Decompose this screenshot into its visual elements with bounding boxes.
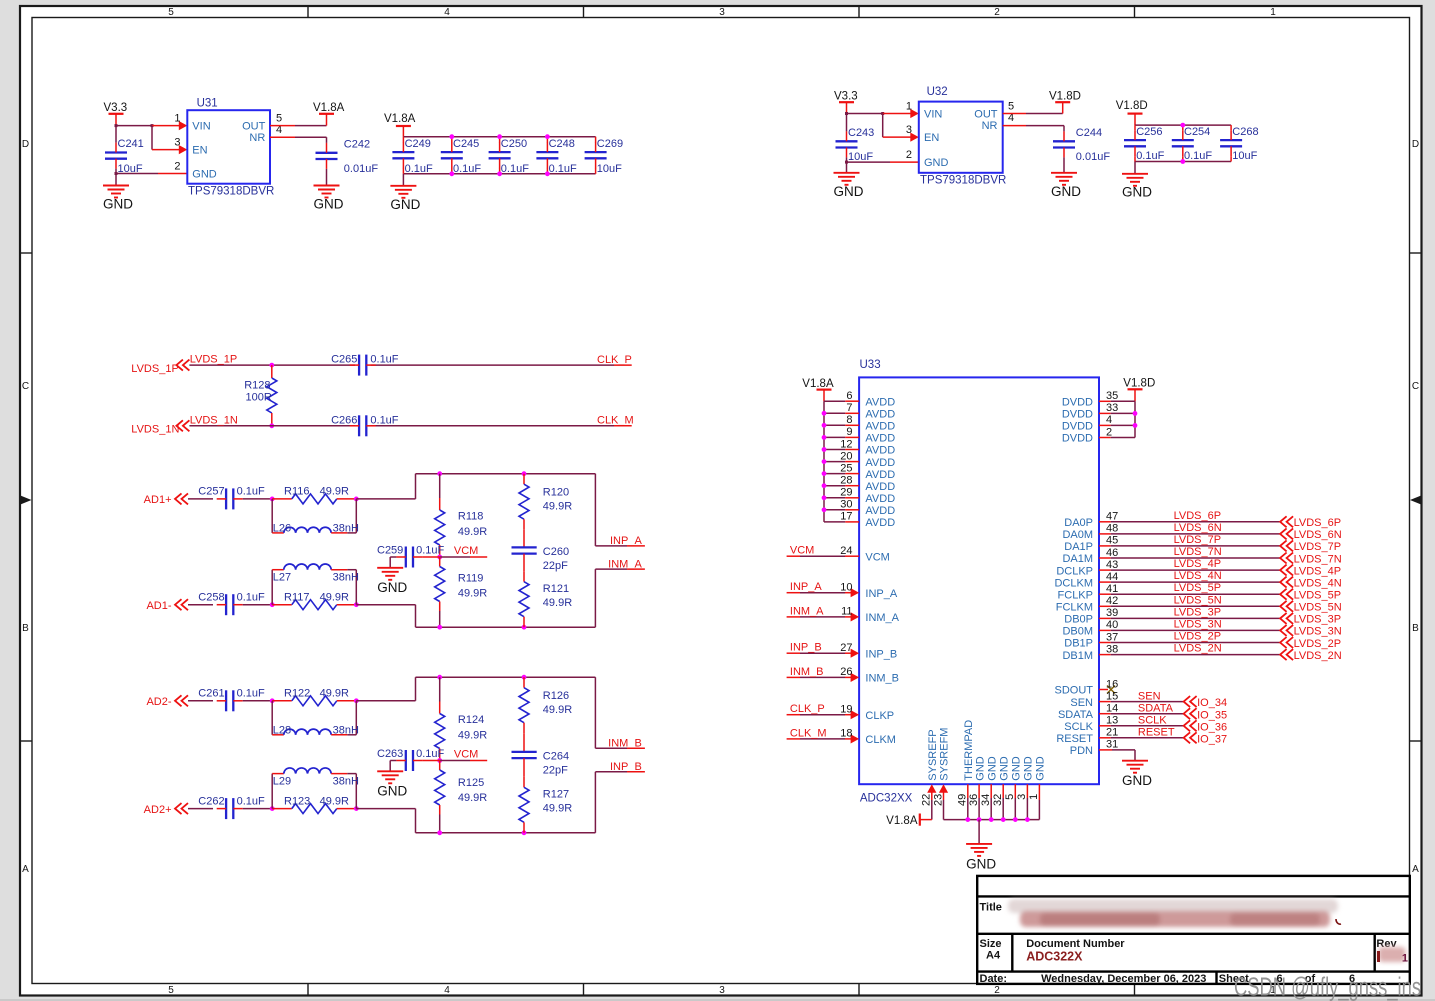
- pin 16 number U33: [1106, 678, 1118, 690]
- svg-text:AVDD: AVDD: [865, 517, 895, 529]
- svg-text:AVDD: AVDD: [865, 481, 895, 493]
- svg-text:9: 9: [846, 426, 852, 438]
- svg-text:INM_A: INM_A: [790, 605, 824, 617]
- wire V1.8D bank to ground: [1134, 162, 1136, 174]
- svg-text:C262: C262: [198, 795, 224, 807]
- svg-text:49.9R: 49.9R: [320, 688, 349, 700]
- svg-text:CLK_P: CLK_P: [597, 354, 632, 366]
- watermark: [1234, 972, 1421, 1001]
- wire V3.3 to U31 VIN: [115, 121, 188, 130]
- wire R117 to network: [356, 605, 415, 628]
- svg-text:R116: R116: [284, 486, 309, 498]
- port LVDS_3P: [1280, 613, 1341, 626]
- svg-text:0.1uF: 0.1uF: [1184, 150, 1212, 162]
- svg-text:V1.8A: V1.8A: [886, 815, 918, 827]
- resistor R128: [244, 365, 277, 426]
- net alias LVDS_7P: [1174, 534, 1222, 546]
- pin 46 number U33: [1106, 547, 1118, 559]
- svg-text:R118: R118: [458, 510, 483, 522]
- wire DVDD pin stubs: [1099, 401, 1135, 437]
- net label INP_A: [610, 535, 642, 547]
- svg-text:GND: GND: [1051, 184, 1081, 199]
- resistor R124: [435, 677, 488, 760]
- svg-text:SCLK: SCLK: [1064, 721, 1093, 733]
- svg-text:GND: GND: [377, 580, 407, 595]
- svg-text:49.9R: 49.9R: [320, 591, 349, 603]
- pin 41 number U33: [1106, 583, 1118, 595]
- junction VCM B: [437, 758, 442, 763]
- title block Sheet label: [1219, 973, 1249, 985]
- U32 pin name VIN: [924, 109, 942, 121]
- ground GND (C243): [834, 173, 864, 199]
- wire LVDS_6P output: [1099, 521, 1280, 523]
- svg-text:DB1P: DB1P: [1064, 638, 1093, 650]
- svg-text:LVDS_5N: LVDS_5N: [1294, 602, 1342, 614]
- svg-text:43: 43: [1106, 559, 1118, 571]
- wire VCM stub A: [440, 556, 488, 558]
- wire net SDATA to port IO_35: [1099, 713, 1184, 715]
- svg-text:R126: R126: [543, 690, 569, 702]
- resistor R127: [519, 758, 572, 833]
- capacitor C241: [105, 126, 144, 175]
- svg-text:AD2-: AD2-: [146, 696, 171, 708]
- junction R116 right: [354, 497, 359, 502]
- svg-text:LVDS_4N: LVDS_4N: [1174, 570, 1222, 582]
- svg-text:R122: R122: [284, 688, 310, 700]
- resistor R126: [519, 677, 572, 752]
- svg-text:LVDS_7P: LVDS_7P: [1174, 534, 1222, 546]
- wire AVDD bus: [823, 401, 825, 522]
- svg-text:C249: C249: [405, 138, 431, 150]
- net alias LVDS_3N: [1174, 618, 1222, 630]
- pin 31 number U33: [1106, 739, 1118, 751]
- power symbol V1.8A (cap bank): [384, 113, 416, 137]
- svg-text:INP_A: INP_A: [790, 581, 822, 593]
- port LVDS_2P: [1280, 637, 1341, 650]
- port LVDS_5N: [1280, 601, 1342, 614]
- title block Date label: [980, 973, 1008, 985]
- svg-text:LVDS_6N: LVDS_6N: [1294, 529, 1342, 541]
- svg-text:0.1uF: 0.1uF: [453, 163, 481, 175]
- ic U32 part number: [920, 175, 1006, 187]
- capacitor C254: [1172, 125, 1213, 162]
- title block Rev label: [1376, 938, 1397, 950]
- svg-text:32: 32: [992, 794, 1004, 806]
- wire EN branch to U31 pin 3: [152, 126, 187, 155]
- title blurred text: [1008, 899, 1341, 927]
- pin 16 SDOUT no-connect: [1099, 686, 1115, 694]
- svg-text:V3.3: V3.3: [834, 91, 858, 103]
- wire LVDS_3N output: [1099, 629, 1280, 631]
- svg-text:CLK_M: CLK_M: [790, 727, 827, 739]
- svg-text:C254: C254: [1184, 126, 1210, 138]
- wire net VCM to U33: [787, 555, 860, 557]
- U33 pin name DCLKM: [1054, 577, 1093, 589]
- ground GND (U33): [966, 844, 996, 872]
- U31 pin name GND: [192, 169, 217, 181]
- U33 pin name INM_A: [865, 612, 899, 624]
- svg-text:SEN: SEN: [1138, 690, 1161, 702]
- U33 pin name DA0P: [1064, 517, 1093, 529]
- svg-text:19: 19: [840, 704, 852, 716]
- pin 37 number U33: [1106, 631, 1118, 643]
- svg-text:16: 16: [1106, 678, 1118, 690]
- svg-text:Date:: Date:: [980, 973, 1008, 985]
- wire net INP_B to U33: [787, 649, 860, 658]
- port LVDS_2N: [1280, 649, 1342, 662]
- pin 4 number U32: [1008, 112, 1014, 124]
- svg-text:LVDS_7N: LVDS_7N: [1294, 553, 1342, 565]
- svg-text:L28: L28: [273, 724, 291, 736]
- svg-text:49.9R: 49.9R: [458, 526, 487, 538]
- svg-text:0.1uF: 0.1uF: [237, 795, 265, 807]
- wire net CLK_P to U33: [787, 710, 860, 719]
- svg-text:0.01uF: 0.01uF: [1076, 151, 1111, 163]
- svg-text:LVDS_3P: LVDS_3P: [1294, 614, 1342, 626]
- svg-text:24: 24: [840, 545, 852, 557]
- title block Size label: [980, 938, 1002, 950]
- U32 pin name NR: [982, 120, 998, 132]
- wire network top rail: [416, 471, 596, 476]
- svg-text:GND: GND: [1035, 756, 1047, 781]
- U33 pin name SCLK: [1064, 721, 1093, 733]
- svg-text:SDOUT: SDOUT: [1055, 685, 1094, 697]
- svg-text:C: C: [1412, 381, 1419, 392]
- net label CLK_M: [597, 414, 634, 426]
- wire net INM_A to U33: [787, 612, 860, 621]
- svg-text:LVDS_6P: LVDS_6P: [1174, 510, 1222, 522]
- svg-text:LVDS_2N: LVDS_2N: [1174, 643, 1222, 655]
- svg-text:33: 33: [1106, 402, 1118, 414]
- U33 pin name DB0M: [1062, 626, 1093, 638]
- svg-text:Size: Size: [980, 938, 1002, 950]
- svg-text:C259: C259: [377, 545, 403, 557]
- net label INM_A: [608, 558, 642, 570]
- capacitor C244: [1053, 127, 1110, 163]
- svg-text:PDN: PDN: [1070, 745, 1093, 757]
- svg-text:AVDD: AVDD: [865, 396, 895, 408]
- wire V3.3 to U32 VIN: [845, 109, 919, 118]
- svg-text:LVDS_5P: LVDS_5P: [1294, 590, 1342, 602]
- capacitor C268: [1220, 125, 1258, 162]
- svg-text:SEN: SEN: [1070, 697, 1093, 709]
- svg-text:AVDD: AVDD: [865, 493, 895, 505]
- svg-text:AVDD: AVDD: [865, 469, 895, 481]
- wire net INM_B to U33: [787, 673, 860, 682]
- port IO_36: [1184, 720, 1227, 733]
- svg-text:25: 25: [840, 462, 852, 474]
- svg-text:GND: GND: [966, 857, 996, 872]
- net alias SDATA: [1138, 702, 1174, 714]
- rev blurred value: [1377, 947, 1408, 965]
- wire AD1+ input: [188, 498, 213, 500]
- svg-text:100R: 100R: [246, 391, 272, 403]
- svg-text:INP_B: INP_B: [790, 642, 822, 654]
- power symbol V1.8D (U33 DVDD): [1123, 378, 1155, 402]
- svg-text:C258: C258: [198, 591, 224, 603]
- resistor R121: [519, 554, 572, 628]
- svg-text:IO_37: IO_37: [1197, 733, 1227, 745]
- svg-text:LVDS_4N: LVDS_4N: [1294, 577, 1342, 589]
- pin 26 number U33: [840, 666, 852, 678]
- svg-text:A4: A4: [986, 950, 1001, 962]
- U33 pin name DB1P: [1064, 638, 1093, 650]
- svg-text:LVDS_4P: LVDS_4P: [1294, 565, 1342, 577]
- svg-text:EN: EN: [192, 145, 207, 157]
- svg-text:49.9R: 49.9R: [320, 795, 349, 807]
- svg-text:6: 6: [846, 390, 852, 402]
- svg-text:DVDD: DVDD: [1062, 421, 1093, 433]
- svg-text:11: 11: [841, 606, 852, 618]
- wire LVDS_5P output: [1099, 593, 1280, 595]
- svg-text:AVDD: AVDD: [865, 433, 895, 445]
- svg-text:C268: C268: [1232, 126, 1258, 138]
- svg-text:R125: R125: [458, 777, 484, 789]
- pin 39 number U33: [1106, 607, 1118, 619]
- svg-text:0.1uF: 0.1uF: [416, 545, 444, 557]
- svg-text:U31: U31: [197, 98, 218, 110]
- wire C243 to ground: [846, 162, 848, 173]
- ground GND (V1.8A bank): [390, 186, 420, 212]
- U33 bottom pin numbers: [921, 794, 1041, 806]
- AVDD pin numbers: [840, 390, 852, 523]
- svg-text:L26: L26: [273, 522, 291, 534]
- port LVDS_7N: [1280, 553, 1342, 566]
- U31 pin name VIN: [192, 121, 210, 133]
- svg-text:45: 45: [1106, 535, 1118, 547]
- wire V1.8D bank bottom rail: [1135, 161, 1231, 163]
- capacitor C243: [836, 114, 875, 164]
- port LVDS_7P: [1280, 540, 1341, 553]
- svg-text:38: 38: [1106, 643, 1118, 655]
- svg-text:0.1uF: 0.1uF: [549, 163, 577, 175]
- svg-text:LVDS_7N: LVDS_7N: [1174, 546, 1222, 558]
- svg-text:EN: EN: [924, 132, 939, 144]
- svg-text:GND: GND: [1122, 185, 1152, 200]
- svg-text:1: 1: [1402, 953, 1408, 965]
- svg-text:5: 5: [1004, 794, 1016, 800]
- svg-text:2: 2: [1106, 426, 1112, 438]
- svg-text:R117: R117: [284, 591, 309, 603]
- port LVDS_1N: [131, 420, 189, 435]
- svg-text:C248: C248: [549, 138, 575, 150]
- wire output INP_B: [595, 772, 645, 833]
- pin 10 number U33: [840, 582, 852, 594]
- svg-text:SYSREFP: SYSREFP: [927, 729, 939, 780]
- U33 bottom pin names: [927, 720, 1047, 781]
- wire AD2- input: [188, 700, 213, 702]
- svg-text:27: 27: [840, 642, 852, 654]
- svg-text:R120: R120: [543, 486, 569, 498]
- pin 43 number U33: [1106, 559, 1118, 571]
- svg-text:LVDS_2N: LVDS_2N: [1294, 650, 1342, 662]
- capacitor C248: [536, 137, 577, 176]
- svg-text:42: 42: [1106, 595, 1118, 607]
- svg-text:INP_A: INP_A: [610, 535, 642, 547]
- pin 5 number U31: [276, 113, 282, 125]
- pin 44 number U33: [1106, 571, 1118, 583]
- capacitor C242: [316, 139, 379, 175]
- junctions on V1.8A bank rails: [449, 134, 549, 176]
- ic U32 TPS79318DBVR box: [919, 102, 1003, 173]
- svg-text:FCLKM: FCLKM: [1056, 602, 1093, 614]
- U33 pin name DA0M: [1062, 529, 1093, 541]
- sheet of label: [1305, 973, 1316, 985]
- svg-text:THERMPAD: THERMPAD: [963, 720, 975, 781]
- svg-text:DA1P: DA1P: [1064, 541, 1093, 553]
- capacitor C262: [198, 795, 265, 819]
- svg-text:AVDD: AVDD: [865, 457, 895, 469]
- wire C242 to ground: [326, 169, 328, 186]
- capacitor C264: [512, 751, 570, 777]
- svg-text:V1.8A: V1.8A: [313, 102, 345, 114]
- wire DVDD bus: [1134, 401, 1136, 437]
- svg-text:B: B: [22, 623, 29, 634]
- title block date value: [1041, 973, 1206, 985]
- svg-text:LVDS_6N: LVDS_6N: [1174, 522, 1222, 534]
- wire R116 to network: [356, 474, 415, 499]
- wire PDN to ground: [1099, 750, 1135, 761]
- capacitor C258: [198, 591, 265, 615]
- junction R123 right: [354, 806, 359, 811]
- svg-text:D: D: [1412, 139, 1419, 150]
- svg-text:GND: GND: [998, 756, 1010, 781]
- svg-text:LVDS_3P: LVDS_3P: [1174, 606, 1222, 618]
- capacitor C249: [392, 137, 433, 176]
- pin 38 number U33: [1106, 643, 1118, 655]
- wire AD2+ input: [188, 808, 213, 810]
- pin 2 number U31: [174, 160, 180, 172]
- svg-text:LVDS_1N: LVDS_1N: [190, 414, 238, 426]
- resistor R122: [272, 688, 356, 706]
- capacitor C263: [377, 748, 445, 771]
- svg-text:C244: C244: [1076, 127, 1102, 139]
- U31 pin name NR: [249, 132, 265, 144]
- svg-text:INP_B: INP_B: [865, 648, 897, 660]
- svg-text:39: 39: [1106, 607, 1118, 619]
- wire LVDS_3P output: [1099, 617, 1280, 619]
- svg-text:LVDS_4P: LVDS_4P: [1174, 558, 1222, 570]
- U33 pin names DVDD: [1062, 397, 1093, 445]
- svg-text:NR: NR: [249, 132, 265, 144]
- svg-text:3: 3: [719, 7, 725, 18]
- ground GND (C259): [377, 568, 407, 595]
- U31 pin name OUT: [242, 121, 266, 133]
- wire U31 NR to C242: [270, 137, 327, 143]
- svg-text:LVDS_7P: LVDS_7P: [1294, 541, 1342, 553]
- net alias VCM (U33 left): [790, 545, 814, 557]
- DVDD pin numbers: [1106, 390, 1118, 438]
- wire LVDS_7P output: [1099, 545, 1280, 547]
- svg-text:LVDS_2P: LVDS_2P: [1174, 631, 1222, 643]
- capacitor C257: [198, 486, 265, 510]
- wire V1.8A bank bottom rail: [403, 173, 595, 175]
- junctions AVDD bus: [822, 411, 827, 512]
- svg-text:L27: L27: [273, 572, 291, 584]
- svg-text:LVDS_5N: LVDS_5N: [1174, 594, 1222, 606]
- svg-text:23: 23: [932, 794, 944, 806]
- U33 pin name VCM: [865, 551, 889, 563]
- svg-text:2: 2: [994, 7, 1000, 18]
- svg-text:V1.8D: V1.8D: [1049, 91, 1081, 103]
- resistor R118: [435, 474, 488, 557]
- capacitor C250: [489, 137, 530, 176]
- wire network bottom rail: [416, 625, 596, 630]
- port AD1+: [144, 493, 188, 506]
- net alias LVDS_7N: [1174, 546, 1222, 558]
- svg-text:GND: GND: [103, 196, 133, 211]
- svg-text:2: 2: [994, 985, 1000, 996]
- port LVDS_6N: [1280, 528, 1342, 541]
- svg-text:L29: L29: [273, 776, 291, 788]
- svg-text:Document Number: Document Number: [1026, 938, 1125, 950]
- net alias LVDS_1N: [190, 414, 238, 426]
- svg-text:R121: R121: [543, 583, 569, 595]
- wire U31 OUT to V1.8A: [270, 125, 327, 127]
- svg-text:R119: R119: [458, 572, 483, 584]
- power symbol V1.8D (U32 out): [1049, 91, 1081, 114]
- wire bank to ground: [402, 174, 404, 186]
- pin 40 number U33: [1106, 619, 1118, 631]
- net alias LVDS_2P: [1174, 631, 1222, 643]
- net label CLK_P: [597, 354, 632, 366]
- pin 3 number U31: [174, 137, 180, 149]
- ground GND (PDN): [1122, 761, 1152, 788]
- svg-text:OUT: OUT: [242, 121, 266, 133]
- svg-text:0.1uF: 0.1uF: [370, 414, 398, 426]
- U33 pin name INP_A: [865, 588, 897, 600]
- svg-text:49.9R: 49.9R: [458, 792, 487, 804]
- net label INP_B: [610, 761, 642, 773]
- svg-text:DVDD: DVDD: [1062, 433, 1093, 445]
- net alias LVDS_2N: [1174, 643, 1222, 655]
- pin 13 number U33: [1106, 715, 1118, 727]
- port AD1-: [146, 599, 188, 612]
- U33 pin names AVDD: [865, 396, 895, 529]
- pin 24 number U33: [840, 545, 852, 557]
- wire LVDS_2N output: [1099, 654, 1280, 656]
- net label VCM A: [454, 545, 478, 557]
- svg-text:49.9R: 49.9R: [543, 597, 572, 609]
- svg-text:38nH: 38nH: [333, 724, 359, 736]
- svg-text:GND: GND: [377, 784, 407, 799]
- svg-text:C263: C263: [377, 748, 403, 760]
- svg-text:DCLKM: DCLKM: [1054, 577, 1093, 589]
- svg-text:DA0P: DA0P: [1064, 517, 1093, 529]
- svg-text:DA1M: DA1M: [1062, 553, 1093, 565]
- pin 48 number U33: [1106, 523, 1118, 535]
- left alignment arrow: [20, 496, 32, 504]
- svg-text:CLK_P: CLK_P: [790, 703, 825, 715]
- svg-text:18: 18: [840, 728, 852, 740]
- svg-text:38nH: 38nH: [333, 572, 359, 584]
- svg-text:C260: C260: [543, 546, 569, 558]
- net alias RESET: [1138, 727, 1175, 739]
- net alias INP_B (U33 left): [790, 642, 822, 654]
- svg-text:ADC322X: ADC322X: [1026, 950, 1083, 964]
- svg-text:0.1uF: 0.1uF: [237, 486, 265, 498]
- inductor L26: [272, 499, 359, 535]
- svg-text:AD2+: AD2+: [144, 804, 172, 816]
- svg-text:AVDD: AVDD: [865, 409, 895, 421]
- bottom page edge shadow: [0, 999, 1435, 1001]
- power symbol V1.8A (SYSREFP): [886, 814, 920, 827]
- inductor L27: [272, 564, 359, 605]
- wire network bottom rail: [416, 830, 596, 835]
- wire AD1- input: [188, 604, 213, 606]
- U33 pin name CLKP: [865, 710, 894, 722]
- svg-text:14: 14: [1106, 703, 1118, 715]
